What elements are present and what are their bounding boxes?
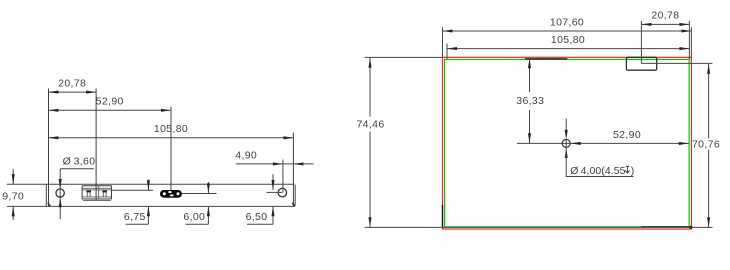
- left end chamfer: [48, 203, 51, 207]
- svg-text:52,90: 52,90: [96, 96, 124, 108]
- dimension 70,76 (right vertical): [708, 64, 710, 139]
- connector pin right: [102, 191, 104, 197]
- svg-text:105,80: 105,80: [551, 34, 585, 46]
- bar right edge (end cap): [293, 185, 295, 206]
- black edge segment top (connector opening): [525, 58, 567, 60]
- svg-text:70,76: 70,76: [692, 138, 720, 150]
- svg-text:Ø 4,00(4.55: Ø 4,00(4.55: [570, 165, 625, 177]
- extension 105,80 left: [446, 44, 448, 60]
- svg-text:52,90: 52,90: [613, 129, 641, 141]
- bar top edge with 9,70 extension: [7, 183, 295, 185]
- usb connector (black oval, left view): [160, 190, 182, 198]
- dimension 52,90 (top view, hole to right edge): [570, 142, 689, 144]
- black edge segment left bottom: [442, 205, 444, 228]
- connector box inner bottom line: [82, 196, 111, 198]
- pcb line from connector box: [112, 189, 154, 191]
- connector box bottom second line: [83, 199, 111, 201]
- extension line 4,90 / 105,80 right + cap seam: [292, 133, 294, 207]
- svg-text:9,70: 9,70: [2, 190, 24, 202]
- extension 107,60 right: [690, 27, 692, 57]
- svg-text:107,60: 107,60: [550, 16, 584, 28]
- extension line 20,78 right: [95, 89, 97, 201]
- extension 74,46 top: [365, 56, 443, 58]
- hole circle left (Ø3,60): [56, 189, 64, 197]
- dimension 20,78 (top): [641, 23, 689, 25]
- bar left edge: [45, 184, 47, 206]
- hole vertical arrows (Ø4,00): [565, 119, 567, 132]
- connector box divider: [98, 186, 100, 199]
- dimension 36,33 (vertical, to hole centre): [529, 58, 531, 92]
- dimension 20,78 (left view): [48, 91, 96, 93]
- extension line 52,90 right: [170, 107, 172, 190]
- leader line to Ø4,00 label: [566, 140, 633, 177]
- connector rectangle top right (plan): [626, 57, 656, 70]
- 6,50 stub line at right hole: [267, 191, 283, 193]
- extension 105,80 / 20,78 right: [688, 21, 690, 60]
- extension 107,60 left: [442, 27, 444, 57]
- bar bottom edge with 9,70 extension: [7, 205, 295, 207]
- dimension 6,00: [207, 182, 209, 193]
- hole circle right: [278, 188, 287, 197]
- extension bottom (shared 74,46 / 70,76): [365, 226, 713, 228]
- right end chamfer: [292, 203, 295, 206]
- svg-text:4,90: 4,90: [235, 149, 257, 161]
- corner dot bottom right: [689, 226, 692, 229]
- left end seam / extension line: [48, 89, 50, 207]
- centre hole circle: [562, 139, 570, 147]
- dimension 74,46 (left vertical): [369, 58, 371, 117]
- centre hole crosshair horizontal: [517, 142, 571, 144]
- svg-text:6,50: 6,50: [246, 211, 268, 223]
- connector pin left: [86, 191, 88, 197]
- connector box inner top lines: [82, 187, 111, 189]
- extension line 4,90 left (to hole centre): [282, 160, 284, 193]
- extension line for 70,76 top (from connector): [641, 62, 712, 64]
- svg-text:6,75: 6,75: [124, 211, 146, 223]
- svg-text:105,80: 105,80: [154, 123, 188, 135]
- extension 20,78 left (through connector): [640, 21, 642, 64]
- svg-text:): ): [631, 165, 635, 177]
- dimension 4,90 (left view): [236, 163, 314, 165]
- svg-text:20,78: 20,78: [58, 78, 86, 90]
- svg-text:74,46: 74,46: [356, 118, 384, 130]
- dimension 52,90 (left view): [48, 109, 171, 111]
- outer red rectangle: [443, 57, 692, 229]
- connector box (left view): [82, 186, 111, 199]
- dimension 107,60 (top): [443, 30, 692, 32]
- dimension 6,75: [147, 180, 149, 191]
- dimension 9,70 (left view height): [12, 169, 14, 184]
- dimension 105,80 (left view): [48, 137, 293, 139]
- svg-text:Ø 3,60: Ø 3,60: [63, 155, 96, 167]
- black edge segment bottom right: [641, 226, 690, 228]
- svg-text:36,33: 36,33: [516, 95, 544, 107]
- svg-text:20,78: 20,78: [651, 10, 679, 22]
- inner green rectangle: [445, 59, 689, 226]
- oval centre line to right: [182, 192, 217, 194]
- dimension 105,80 (top): [447, 48, 689, 50]
- svg-text:6,00: 6,00: [183, 211, 205, 223]
- dimension 6,50: [272, 174, 274, 190]
